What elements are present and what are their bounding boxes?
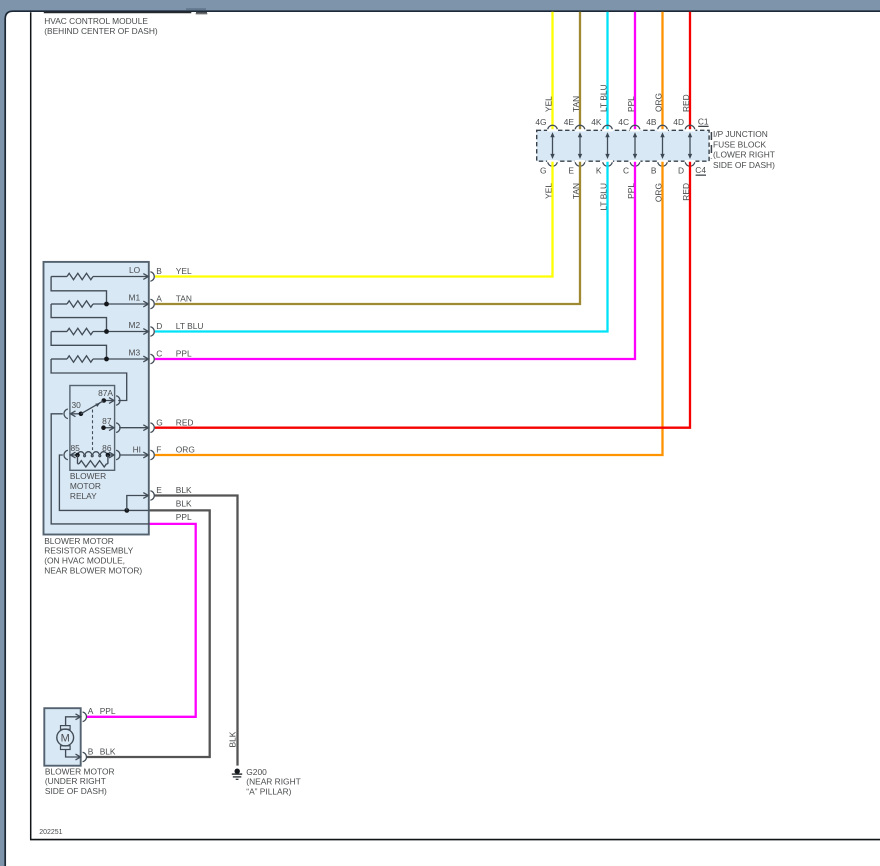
svg-text:G: G [540, 165, 547, 175]
relay coil suppression resistor [78, 455, 108, 467]
relay pin 87A [102, 396, 121, 406]
resistor M3 [51, 356, 148, 362]
fuse block pin 4D notch [685, 125, 696, 131]
pin label 4C [618, 117, 629, 127]
fuse block pass-through arrow 4D-D [688, 132, 692, 159]
svg-text:D: D [678, 165, 684, 175]
label 87A [98, 388, 113, 398]
wire relay 87 to pin G [119, 427, 148, 429]
wire RED from fuse block to resistor assembly pin G [155, 162, 690, 428]
svg-text:I/P JUNCTION: I/P JUNCTION [713, 129, 768, 139]
svg-text:85: 85 [71, 443, 81, 453]
svg-text:BLOWER: BLOWER [70, 471, 106, 481]
pin label K [596, 165, 602, 175]
ground label G200 [246, 767, 300, 797]
pin G exit arrow and notch [143, 423, 154, 433]
wire BLK from resistor pin E to ground G200 [155, 496, 238, 766]
svg-text:30: 30 [72, 400, 82, 410]
pin letter E and wire color BLK [156, 485, 192, 495]
ladder wire M2 to M3 [51, 332, 106, 359]
wire label PPL above fuse block [626, 96, 636, 112]
svg-text:M1: M1 [129, 292, 141, 302]
svg-text:SIDE OF DASH): SIDE OF DASH) [713, 160, 775, 170]
HVAC control module (cut off at top) [44, 8, 208, 36]
diagram number [39, 829, 62, 836]
pin label G [540, 165, 547, 175]
svg-text:B: B [651, 165, 657, 175]
pin letter F and wire color ORG [156, 445, 195, 455]
svg-text:LT BLU: LT BLU [599, 84, 609, 112]
ladder wire LO to M1 [51, 277, 106, 304]
relay switch arm 30 to 87A [81, 401, 103, 414]
svg-text:4K: 4K [591, 117, 602, 127]
wire LT BLU from fuse block to resistor assembly pin D [155, 162, 608, 332]
wire junction to pin E [127, 496, 149, 511]
wire PPL from HVAC module to fuse block pin 4C [634, 12, 636, 130]
wire RED from HVAC module to fuse block pin 4D [689, 12, 691, 130]
pin label 4D [673, 117, 684, 127]
wire label TAN above fuse block [571, 96, 581, 112]
svg-text:RELAY: RELAY [70, 491, 97, 501]
svg-text:C4: C4 [695, 165, 706, 175]
svg-text:RESISTOR ASSEMBLY: RESISTOR ASSEMBLY [44, 546, 133, 556]
blower motor box [44, 708, 80, 766]
svg-text:M2: M2 [129, 320, 141, 330]
fuse block pin G notch [547, 160, 558, 166]
blower motor M1 symbol [57, 717, 81, 757]
wire BLK from resistor assembly to blower motor pin B [87, 510, 210, 757]
wire label TAN below fuse block [571, 183, 581, 199]
fuse block pin B notch [657, 160, 668, 166]
I/P junction fuse block connector [537, 130, 712, 161]
svg-text:86: 86 [102, 443, 112, 453]
label M1 [129, 292, 141, 302]
relay label text [70, 471, 106, 501]
blower motor caption [45, 766, 115, 796]
wire label BLK vertical near G200 [228, 731, 238, 747]
wire TAN from fuse block to resistor assembly pin A [155, 162, 580, 304]
blower motor resistor assembly box [44, 262, 149, 535]
svg-text:(NEAR RIGHT: (NEAR RIGHT [246, 777, 300, 787]
resistor assembly caption [44, 536, 142, 576]
pin label 4B [646, 117, 657, 127]
wire label LT BLU above fuse block [599, 84, 609, 112]
relay coil 85-86 [64, 450, 120, 460]
wire relay 85 to BLK exit [59, 455, 148, 510]
svg-text:PPL: PPL [176, 512, 192, 522]
pin label E [568, 165, 574, 175]
fuse block pin 4K notch [602, 125, 613, 131]
svg-text:87: 87 [102, 416, 112, 426]
wire YEL from HVAC module to fuse block pin 4G [551, 12, 553, 130]
wire ORG from fuse block to resistor assembly pin F [155, 162, 663, 455]
pin label B [651, 165, 657, 175]
svg-text:LT BLU: LT BLU [176, 321, 204, 331]
junction dot M2 [104, 329, 109, 334]
svg-text:YEL: YEL [544, 96, 554, 112]
fuse block location text [713, 129, 775, 170]
wire YEL from fuse block to resistor assembly pin B [155, 162, 553, 277]
pin C exit arrow and notch [143, 354, 154, 364]
svg-text:HVAC CONTROL MODULE: HVAC CONTROL MODULE [44, 16, 148, 26]
label HI [133, 444, 141, 454]
svg-text:“A” PILLAR): “A” PILLAR) [246, 787, 291, 797]
svg-text:TAN: TAN [176, 294, 192, 304]
pin F exit arrow and notch [143, 450, 154, 460]
label M3 [129, 347, 141, 357]
relay armature dashed link [92, 410, 94, 451]
ladder wire M1 to M2 [51, 304, 106, 331]
svg-text:D: D [156, 321, 162, 331]
fuse block pin E notch [575, 160, 586, 166]
svg-text:G200: G200 [246, 767, 267, 777]
wire PPL from fuse block to resistor assembly pin C [155, 162, 635, 359]
labels 85 86 [71, 443, 112, 453]
junction dot M3 [104, 357, 109, 362]
pin label 4G [535, 117, 546, 127]
svg-text:(LOWER RIGHT: (LOWER RIGHT [713, 150, 775, 160]
junction dot E/BLK [124, 508, 129, 513]
svg-text:BLK: BLK [228, 731, 238, 747]
svg-text:MOTOR: MOTOR [70, 481, 101, 491]
svg-text:LO: LO [129, 265, 141, 275]
svg-text:YEL: YEL [176, 266, 192, 276]
ground G200 [232, 769, 242, 780]
svg-text:FUSE BLOCK: FUSE BLOCK [713, 139, 766, 149]
wire label RED above fuse block [681, 94, 691, 112]
wire TAN from HVAC module to fuse block pin 4E [579, 12, 581, 130]
label 30 [72, 400, 82, 410]
connector label C1 [698, 116, 709, 127]
svg-text:HI: HI [133, 444, 141, 454]
fuse block pass-through arrow 4G-G [550, 132, 554, 159]
svg-text:PPL: PPL [100, 706, 116, 716]
svg-text:(ON HVAC MODULE,: (ON HVAC MODULE, [44, 556, 125, 566]
svg-text:4E: 4E [564, 117, 575, 127]
wire label PPL (motor feed) [176, 512, 192, 522]
svg-text:BLOWER MOTOR: BLOWER MOTOR [45, 766, 115, 776]
svg-text:NEAR BLOWER MOTOR): NEAR BLOWER MOTOR) [44, 566, 142, 576]
wire label YEL below fuse block [544, 183, 554, 199]
pin D exit arrow and notch [143, 327, 154, 337]
pin label 4E [564, 117, 575, 127]
pin letter B and wire color YEL [156, 266, 192, 276]
pin B exit arrow and notch [143, 272, 154, 282]
wire label BLK (motor ground branch) [176, 498, 192, 508]
svg-text:B: B [156, 266, 162, 276]
motor pin A arrow and notch [76, 712, 87, 722]
pin A exit arrow and notch [143, 299, 154, 309]
fuse block pass-through arrow 4C-C [633, 132, 637, 159]
relay pin 30 [64, 409, 83, 419]
pin letter B and wire color BLK [88, 746, 116, 756]
svg-text:SIDE OF DASH): SIDE OF DASH) [45, 786, 107, 796]
svg-text:E: E [156, 485, 162, 495]
svg-text:BLK: BLK [100, 746, 116, 756]
label 87 [102, 416, 112, 426]
label LO [129, 265, 141, 275]
fuse block pass-through arrow 4E-E [578, 132, 582, 159]
fuse block pin D notch [685, 160, 696, 166]
relay pin 87 [101, 423, 120, 433]
svg-text:M: M [61, 733, 70, 745]
pin letter A and wire color PPL [88, 706, 116, 716]
svg-text:K: K [596, 165, 602, 175]
pin letter C and wire color PPL [156, 349, 192, 359]
wire label PPL below fuse block [626, 183, 636, 199]
pin label 4K [591, 117, 602, 127]
svg-text:C: C [156, 349, 162, 359]
svg-text:4D: 4D [673, 117, 684, 127]
svg-text:RED: RED [176, 417, 194, 427]
wire M3 to relay contact 87A [51, 359, 127, 401]
wire relay 30 to PPL exit [51, 414, 149, 524]
label M2 [129, 320, 141, 330]
svg-text:202251: 202251 [39, 829, 62, 836]
svg-text:M3: M3 [129, 347, 141, 357]
wire ORG from HVAC module to fuse block pin 4B [661, 12, 663, 130]
svg-text:G: G [156, 417, 163, 427]
pin letter D and wire color LT BLU [156, 321, 203, 331]
pin E exit arrow and notch [143, 491, 154, 501]
wire label LT BLU below fuse block [599, 183, 609, 211]
fuse block pin C notch [630, 160, 641, 166]
wire label RED below fuse block [681, 183, 691, 201]
svg-text:B: B [88, 746, 94, 756]
svg-text:4G: 4G [535, 117, 546, 127]
blower motor relay box [70, 386, 115, 471]
resistor M1 [51, 301, 148, 307]
svg-text:(UNDER RIGHT: (UNDER RIGHT [45, 776, 106, 786]
resistor M2 [51, 328, 148, 334]
svg-text:RED: RED [681, 94, 691, 112]
junction dot M1 [104, 302, 109, 307]
fuse block pin 4B notch [657, 125, 668, 131]
pin label D [678, 165, 684, 175]
svg-text:ORG: ORG [176, 445, 195, 455]
svg-text:BLK: BLK [176, 498, 192, 508]
connector label C4 [695, 165, 706, 176]
wire label ORG above fuse block [654, 93, 664, 112]
svg-text:A: A [88, 706, 94, 716]
wire relay 86 to pin F [119, 454, 148, 456]
resistor LO [51, 273, 148, 279]
fuse block pin 4E notch [575, 125, 586, 131]
fuse block pin 4G notch [547, 125, 558, 131]
fuse block pin K notch [602, 160, 613, 166]
svg-text:TAN: TAN [571, 96, 581, 112]
svg-text:BLK: BLK [176, 485, 192, 495]
wire PPL from resistor assembly (relay 30) to blower motor pin A [87, 524, 196, 717]
wire LT BLU from HVAC module to fuse block pin 4K [606, 12, 608, 130]
svg-text:4C: 4C [618, 117, 629, 127]
pin letter A and wire color TAN [156, 294, 192, 304]
svg-text:PPL: PPL [176, 349, 192, 359]
svg-text:E: E [568, 165, 574, 175]
svg-text:C: C [623, 165, 629, 175]
motor pin B arrow and notch [76, 752, 87, 762]
svg-text:(BEHIND CENTER OF DASH): (BEHIND CENTER OF DASH) [44, 26, 158, 36]
motor letter M [61, 733, 70, 745]
svg-text:A: A [156, 294, 162, 304]
pin letter G and wire color RED [156, 417, 193, 427]
svg-text:BLOWER MOTOR: BLOWER MOTOR [44, 536, 114, 546]
svg-text:ORG: ORG [654, 93, 664, 112]
svg-text:C1: C1 [698, 116, 709, 126]
fuse block pin 4C notch [630, 125, 641, 131]
fuse block pass-through arrow 4K-K [605, 132, 609, 159]
svg-text:87A: 87A [98, 388, 113, 398]
wire label YEL above fuse block [544, 96, 554, 112]
wire label ORG below fuse block [654, 183, 664, 202]
svg-text:PPL: PPL [626, 96, 636, 112]
fuse block pass-through arrow 4B-B [660, 132, 664, 159]
svg-text:4B: 4B [646, 117, 657, 127]
svg-text:F: F [156, 445, 161, 455]
pin label C [623, 165, 629, 175]
